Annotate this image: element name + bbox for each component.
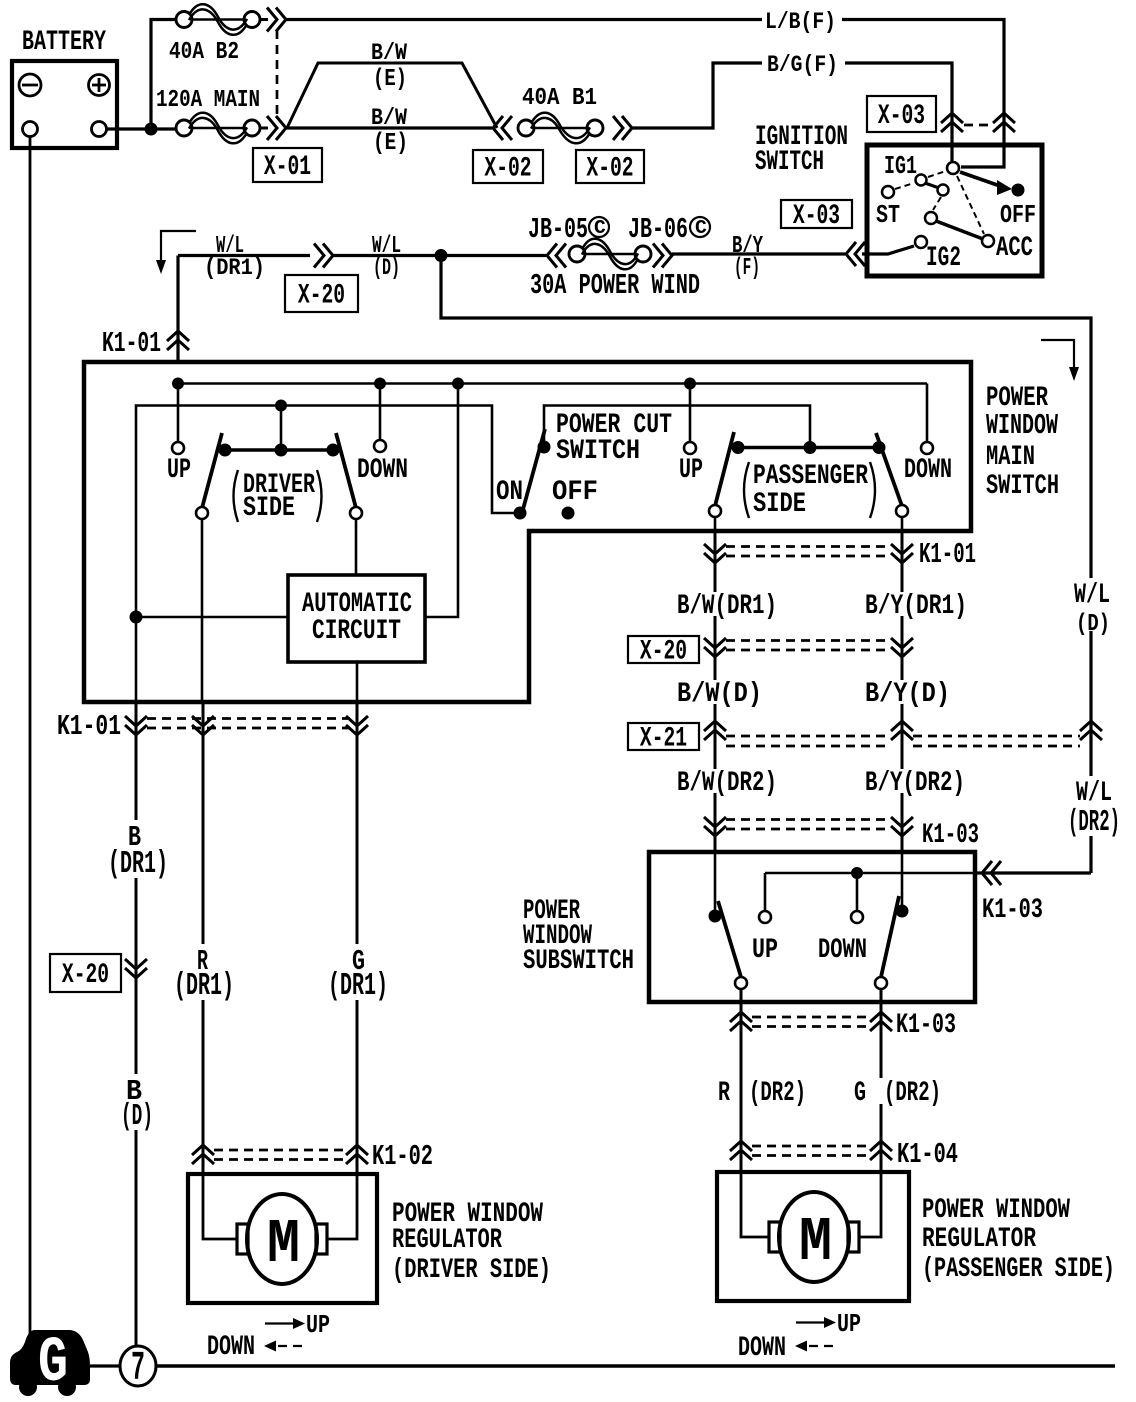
svg-text:SWITCH: SWITCH: [755, 147, 824, 178]
wire W/L (D) row2: [333, 254, 436, 257]
node top bus driver down: [374, 378, 386, 390]
wire R into driver motor: [203, 1174, 237, 1239]
svg-text:IG1: IG1: [884, 152, 917, 181]
svg-text:B/Y(DR2): B/Y(DR2): [865, 768, 965, 799]
svg-text:B/Y(DR1): B/Y(DR1): [865, 591, 967, 622]
subswitch down terminal: [818, 873, 867, 966]
svg-text:W/L: W/L: [1074, 580, 1110, 611]
svg-text:X-20: X-20: [298, 281, 345, 312]
ignition IG1 terminal: [884, 152, 927, 186]
ignition dashed IG1-common: [928, 171, 946, 177]
svg-text:G: G: [38, 1328, 68, 1400]
svg-text:K1-03: K1-03: [896, 1010, 956, 1041]
svg-text:PASSENGER: PASSENGER: [753, 461, 868, 492]
svg-text:M: M: [267, 1209, 300, 1280]
wire fuse B2 to L/B(F): [286, 18, 762, 21]
svg-text:IG2: IG2: [926, 243, 961, 274]
passenger up terminal: [679, 384, 703, 487]
svg-text:WINDOW: WINDOW: [986, 409, 1058, 442]
connector X-03 label box top: [867, 96, 936, 132]
power window regulator passenger box: [717, 1172, 909, 1301]
passenger side label: [744, 461, 875, 520]
fuse 30A POWER WIND: [530, 239, 700, 302]
node second bus driver: [275, 400, 287, 412]
svg-text:MAIN: MAIN: [986, 442, 1035, 473]
wire W/L (DR1): [178, 254, 310, 257]
wire R (DR2): [740, 990, 743, 1172]
ignition switch label: [755, 122, 848, 178]
svg-text:B/W(DR1): B/W(DR1): [677, 591, 777, 622]
svg-text:K1-02: K1-02: [372, 1140, 433, 1173]
svg-text:B/G(F): B/G(F): [767, 52, 838, 78]
driver down terminal: [357, 384, 408, 487]
joint connector JB-05 JB-06 labels: [528, 213, 710, 246]
ignition mid terminal: [925, 212, 937, 224]
svg-text:K1-04: K1-04: [897, 1138, 958, 1171]
main switch top bus: [178, 382, 927, 385]
passenger down terminal: [904, 384, 952, 487]
motor M passenger: [769, 1192, 859, 1282]
wire W/L (D) to subswitch: [1089, 631, 1092, 873]
svg-text:REGULATOR: REGULATOR: [392, 1225, 502, 1256]
wire label B/W (E) lower: [368, 105, 410, 157]
svg-text:B/W(DR2): B/W(DR2): [677, 768, 777, 799]
connector X-03 chevron on B/Y: [846, 242, 865, 266]
node subswitch right: [896, 905, 909, 918]
svg-text:K1-01: K1-01: [919, 538, 976, 571]
wire label G (DR2): [854, 1078, 947, 1109]
svg-text:X-02: X-02: [484, 154, 531, 185]
wire passenger left contact down: [714, 518, 717, 531]
svg-text:(E): (E): [373, 66, 407, 93]
svg-text:JB-06: JB-06: [628, 213, 688, 246]
ignition switch box: [867, 145, 1042, 276]
power cut blade: [522, 429, 545, 513]
passenger switch blade left: [709, 432, 734, 517]
svg-text:UP: UP: [752, 935, 778, 966]
subswitch up terminal: [752, 873, 778, 966]
wire label B/Y (F): [728, 233, 768, 282]
svg-text:POWER WINDOW: POWER WINDOW: [922, 1195, 1070, 1226]
subswitch blade right: [875, 896, 899, 989]
wire label B (DR1): [108, 820, 168, 882]
wire B (DR1): [135, 702, 138, 1346]
wire label B/W (E) upper: [371, 40, 407, 93]
svg-text:OFF: OFF: [1000, 201, 1036, 230]
wire label G (DR1): [328, 944, 388, 1004]
node driver bar left: [219, 444, 232, 457]
driver switch bar: [225, 406, 333, 451]
svg-text:G: G: [854, 1078, 866, 1109]
node top bus passenger up: [684, 378, 696, 390]
svg-text:(DR1): (DR1): [204, 255, 265, 281]
svg-text:DOWN: DOWN: [357, 455, 408, 486]
wire label L/B(F): [765, 9, 836, 35]
wire passenger right contact down: [901, 518, 904, 531]
automatic circuit box: [288, 575, 425, 662]
svg-text:SWITCH: SWITCH: [986, 471, 1059, 502]
node top bus automatic: [452, 378, 464, 390]
connector X-20 chevron row2: [314, 244, 333, 268]
passenger switch bar: [738, 446, 879, 450]
node subswitch left: [709, 910, 722, 923]
passenger up direction arrow: [796, 1310, 861, 1339]
ground bus line: [156, 1364, 1115, 1368]
ignition wiper to OFF: [960, 172, 1012, 195]
svg-text:K1-03: K1-03: [982, 895, 1043, 926]
wire B output inside box: [135, 617, 138, 702]
svg-text:BATTERY: BATTERY: [22, 27, 106, 58]
svg-text:SWITCH: SWITCH: [556, 436, 640, 467]
wire label B/Y(D): [860, 679, 955, 710]
power window subswitch label: [523, 896, 634, 977]
connector K1-04: [730, 1138, 958, 1171]
wire label W/L (DR2): [1062, 776, 1126, 840]
connector X-20 label box row2: [285, 275, 358, 312]
connector K1-02: [192, 1140, 433, 1173]
node passenger bar left: [732, 441, 745, 454]
wire label W/L (D) right: [1068, 578, 1116, 638]
connector X-01 label box: [253, 148, 322, 183]
ignition IG2 terminal: [915, 236, 961, 274]
connector K1-03 chevron on W/L: [982, 861, 1043, 926]
wire W/L into subswitch: [975, 871, 1091, 874]
svg-text:B/W(D): B/W(D): [677, 679, 762, 710]
svg-text:X-03: X-03: [878, 101, 925, 132]
power cut top node: [538, 441, 551, 454]
wire G into driver motor: [327, 1174, 357, 1239]
svg-text:(D): (D): [1076, 611, 1110, 638]
svg-text:30A POWER WIND: 30A POWER WIND: [530, 269, 700, 302]
svg-text:(D): (D): [121, 1100, 153, 1134]
node driver bar mid: [275, 444, 288, 457]
svg-text:(DR2): (DR2): [884, 1078, 941, 1109]
wire B/Y to subswitch blade: [901, 852, 904, 911]
wire B/Y passenger drop: [901, 531, 904, 852]
svg-text:DOWN: DOWN: [818, 935, 867, 966]
passenger down direction arrow: [738, 1333, 833, 1364]
svg-text:UP: UP: [679, 455, 703, 486]
wire battery positive to junction: [106, 127, 176, 130]
connector K1-01 passenger: [704, 538, 976, 571]
continuation arrow down right: [1041, 340, 1079, 381]
svg-text:SIDE: SIDE: [243, 493, 295, 524]
svg-text:UP: UP: [837, 1310, 861, 1339]
wire label B (D): [118, 1074, 158, 1134]
svg-text:7: 7: [131, 1346, 145, 1392]
connector K1-01 below main switch: [57, 710, 368, 743]
wire label B/G(F): [767, 52, 838, 78]
driver up terminal: [167, 384, 191, 487]
svg-text:120A MAIN: 120A MAIN: [156, 87, 260, 114]
connector X-01 chevron top: [260, 8, 286, 32]
driver side label: [234, 470, 322, 524]
ignition OFF contact: [1000, 184, 1036, 231]
svg-text:(DR1): (DR1): [174, 968, 234, 1004]
svg-text:X-21: X-21: [640, 724, 687, 755]
svg-text:(E): (E): [373, 130, 408, 157]
svg-text:X-01: X-01: [264, 152, 311, 183]
node top bus K1-01: [172, 378, 184, 390]
wire ground to node 7: [90, 1364, 120, 1367]
svg-text:DOWN: DOWN: [904, 455, 952, 486]
ignition ST terminal: [876, 186, 900, 230]
wire to automatic circuit left: [136, 616, 288, 619]
fuse 40A B2: [169, 4, 260, 66]
node driver bar right: [327, 444, 340, 457]
wire B/W to subswitch blade: [714, 852, 717, 916]
junction node battery feed: [145, 123, 158, 136]
svg-text:B/Y(D): B/Y(D): [865, 679, 950, 710]
svg-text:SUBSWITCH: SUBSWITCH: [523, 946, 634, 977]
driver down direction arrow: [207, 1332, 302, 1363]
svg-text:JB-05: JB-05: [528, 213, 588, 246]
ignition wire B/Y to IG2: [862, 246, 914, 254]
svg-text:REGULATOR: REGULATOR: [922, 1224, 1036, 1255]
ignition dashed common-ACC: [957, 176, 984, 234]
wire label B/Y(DR1): [860, 591, 970, 622]
svg-text:X-02: X-02: [586, 154, 633, 185]
driver up direction arrow: [265, 1311, 330, 1340]
connector K1-01 chevron top: [102, 327, 189, 360]
driver switch blade left: [196, 433, 222, 519]
svg-text:OFF: OFF: [552, 477, 598, 508]
svg-text:UP: UP: [306, 1311, 330, 1340]
svg-text:X-03: X-03: [793, 201, 840, 232]
power window main switch label: [986, 383, 1059, 502]
wire label R (DR2): [718, 1078, 806, 1109]
svg-text:(F): (F): [734, 255, 760, 282]
svg-text:K1-01: K1-01: [57, 710, 121, 743]
wire label W/L (D): [372, 233, 401, 281]
connector X-02 label box B: [576, 150, 644, 185]
connector X-20 passenger: [628, 636, 913, 668]
wire fuse B1 to B/G(F): [632, 63, 762, 128]
wire driver right contact to automatic: [355, 520, 358, 575]
passenger switch blade right: [876, 433, 908, 517]
subswitch blade left: [718, 901, 747, 989]
wire B/Y (F): [672, 252, 845, 255]
wire B/W(E) lower: [286, 126, 492, 129]
wire driver left contact down: [201, 520, 204, 702]
main switch second bus right: [544, 406, 810, 448]
ground car symbol: [10, 1328, 90, 1400]
svg-text:(D): (D): [373, 255, 400, 281]
connector X-02 chevron right: [613, 116, 632, 140]
svg-text:40A B2: 40A B2: [169, 39, 239, 66]
ignition dashed ST-IG1: [895, 183, 914, 189]
connector chevron right of 30A fuse: [653, 244, 672, 268]
svg-text:X-20: X-20: [62, 960, 109, 991]
power cut switch label: [556, 410, 672, 467]
svg-text:M: M: [799, 1207, 832, 1278]
connector chevron left of 30A fuse: [547, 244, 566, 268]
wire L/B(F) to ignition switch: [842, 20, 1004, 168]
wire R (DR1): [202, 702, 205, 1174]
power cut OFF contact: [552, 477, 598, 520]
power cut ON contact: [496, 477, 527, 520]
continuation arrow down left: [156, 231, 196, 274]
driver switch blade right: [336, 433, 362, 519]
svg-text:DOWN: DOWN: [738, 1333, 786, 1364]
wire R into passenger motor: [741, 1172, 769, 1237]
connector X-20 on B wire: [50, 954, 147, 992]
power window regulator passenger label: [922, 1195, 1115, 1285]
wire label B/Y(DR2): [860, 768, 970, 799]
wire B/W passenger drop: [714, 531, 717, 852]
svg-text:C: C: [594, 217, 606, 239]
ignition dashed aux-mid: [933, 197, 941, 210]
power window subswitch box: [649, 852, 975, 1002]
connector X-02 chevron left: [493, 116, 512, 140]
svg-text:K1-03: K1-03: [922, 820, 979, 851]
wire W/L (DR1) down to main switch: [176, 256, 179, 363]
wire top bus to automatic right: [425, 384, 458, 618]
ignition wire mid to ACC: [936, 221, 983, 239]
wire label B/W(D): [672, 679, 767, 710]
ground node 7: [120, 1346, 156, 1392]
wire G (DR1): [356, 702, 359, 1174]
connector X-21: [628, 721, 1102, 755]
main switch second bus left: [136, 406, 515, 618]
wire B/W(E) upper branch: [287, 63, 497, 128]
battery: [12, 27, 117, 148]
svg-text:L/B(F): L/B(F): [765, 9, 836, 35]
wire label B/W(DR1): [672, 591, 782, 622]
svg-text:C: C: [695, 217, 707, 239]
svg-text:R: R: [718, 1078, 730, 1109]
motor M driver: [237, 1194, 327, 1284]
node passenger bar mid: [804, 441, 817, 454]
wire junction up to 40A B2 fuse: [151, 20, 176, 130]
power window regulator driver box: [188, 1174, 377, 1303]
fuse 120A MAIN: [156, 87, 260, 143]
connector X-03 chevrons: [941, 113, 1015, 132]
svg-text:ACC: ACC: [996, 233, 1033, 264]
svg-text:(DR1): (DR1): [108, 846, 168, 882]
svg-text:40A B1: 40A B1: [522, 85, 597, 112]
fuse 40A B1: [518, 85, 603, 143]
wire node B junction: [130, 611, 143, 624]
wire label W/L (DR1): [204, 233, 265, 281]
svg-text:B/W: B/W: [371, 40, 407, 66]
wire G into passenger motor: [859, 1172, 881, 1237]
ignition ACC terminal: [982, 233, 1033, 264]
junction node W/L: [435, 249, 448, 262]
svg-text:ON: ON: [496, 477, 523, 508]
wire W/L (D) long feed: [441, 256, 1091, 581]
svg-text:DOWN: DOWN: [207, 1332, 255, 1363]
power window main switch box: [84, 362, 971, 702]
wire label R (DR1): [174, 944, 234, 1004]
subswitch down node: [851, 867, 863, 879]
svg-text:(DR1): (DR1): [328, 968, 388, 1004]
connector X-01 chevron main: [260, 116, 286, 140]
ignition aux terminal: [925, 183, 949, 196]
subswitch feed bus: [765, 872, 975, 875]
wire W/L to JB-05: [441, 254, 546, 257]
wire battery negative to ground: [29, 136, 32, 1338]
svg-text:(DRIVER SIDE): (DRIVER SIDE): [392, 1255, 551, 1286]
connector X-02 label box A: [473, 150, 543, 185]
wire G (DR2): [880, 990, 883, 1172]
connector K1-03 above subswitch: [704, 817, 979, 851]
svg-text:(PASSENGER SIDE): (PASSENGER SIDE): [922, 1254, 1115, 1285]
svg-text:SIDE: SIDE: [753, 489, 806, 520]
power window regulator driver label: [392, 1199, 551, 1286]
svg-text:B/W: B/W: [371, 105, 407, 131]
svg-text:(DR2): (DR2): [1068, 806, 1120, 840]
svg-text:(DR2): (DR2): [749, 1078, 806, 1109]
connector X-03 label box lower: [781, 200, 852, 232]
connector X-01 dashed link: [276, 30, 279, 116]
wire automatic to G output: [356, 662, 359, 702]
wire B/G(F) to ignition switch: [845, 63, 952, 161]
ignition terminal common: [947, 162, 959, 174]
connector K1-03 below subswitch: [730, 1010, 956, 1041]
node passenger bar right: [873, 441, 886, 454]
svg-text:X-20: X-20: [640, 637, 687, 668]
svg-text:W/L: W/L: [1076, 778, 1112, 809]
wire label B/W(DR2): [672, 768, 782, 799]
svg-text:UP: UP: [167, 455, 191, 486]
svg-text:ST: ST: [876, 201, 900, 230]
svg-text:CIRCUIT: CIRCUIT: [312, 616, 401, 647]
svg-text:K1-01: K1-01: [102, 327, 161, 360]
